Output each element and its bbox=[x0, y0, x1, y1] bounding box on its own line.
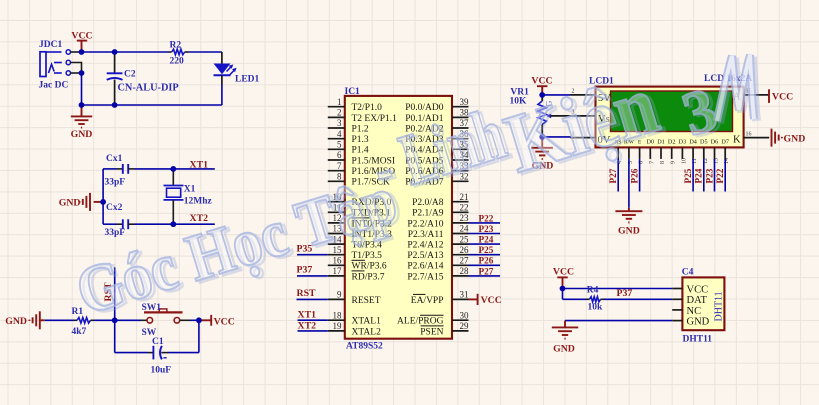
svg-text:P23: P23 bbox=[479, 224, 494, 234]
svg-text:23: 23 bbox=[460, 213, 470, 223]
svg-text:P2.1/A9: P2.1/A9 bbox=[412, 209, 444, 219]
LCD inside pin names bbox=[598, 92, 742, 147]
svg-text:4k7: 4k7 bbox=[72, 327, 87, 337]
svg-text:EA/VPP: EA/VPP bbox=[411, 296, 444, 306]
svg-text:28: 28 bbox=[460, 266, 470, 276]
svg-text:RD/P3.7: RD/P3.7 bbox=[352, 272, 385, 282]
svg-text:XT2: XT2 bbox=[298, 321, 317, 332]
svg-text:GND: GND bbox=[71, 129, 93, 140]
svg-text:26: 26 bbox=[460, 245, 470, 255]
ground (LCD K pin) bbox=[772, 129, 806, 147]
net wires + labels right of IC (P22-P27) bbox=[469, 213, 501, 276]
DHT11 rotated inner label bbox=[714, 291, 725, 321]
DHT11 pin stubs bbox=[672, 289, 682, 321]
svg-text:17: 17 bbox=[333, 266, 343, 276]
power VCC (DHT11) bbox=[553, 267, 574, 289]
svg-text:7: 7 bbox=[649, 161, 655, 164]
svg-text:GND: GND bbox=[784, 134, 806, 145]
svg-text:JDC1: JDC1 bbox=[39, 40, 62, 50]
DHT11 inside pin names bbox=[687, 284, 710, 327]
svg-text:PSEN: PSEN bbox=[420, 327, 443, 337]
wire gnd to R1 bbox=[45, 319, 74, 321]
wire: LED cathode down and bottom rail bbox=[221, 75, 223, 84]
ground (VR1) bbox=[532, 137, 554, 171]
LCD left pin stubs + numbers bbox=[571, 89, 596, 138]
svg-text:220: 220 bbox=[170, 57, 185, 67]
svg-text:CN-ALU-DIP: CN-ALU-DIP bbox=[118, 82, 179, 93]
LCD right pin stubs + numbers bbox=[744, 89, 770, 138]
ground (reset, left) bbox=[5, 311, 45, 329]
ground (DHT11) bbox=[552, 321, 672, 355]
wire R4 to DAT + net label P37 bbox=[601, 298, 605, 300]
svg-text:5: 5 bbox=[337, 140, 342, 150]
wire switch to VCC node bbox=[180, 319, 190, 321]
svg-text:7: 7 bbox=[337, 161, 342, 171]
potentiometer VR1 bbox=[510, 88, 571, 137]
svg-text:P2.7/A15: P2.7/A15 bbox=[407, 272, 443, 282]
svg-text:12Mhz: 12Mhz bbox=[184, 196, 213, 206]
svg-text:R4: R4 bbox=[587, 286, 599, 296]
reset junction dots bbox=[112, 317, 118, 323]
svg-text:P25: P25 bbox=[479, 245, 494, 255]
svg-text:GND: GND bbox=[553, 344, 575, 355]
svg-text:GND: GND bbox=[687, 317, 710, 328]
ground (jack) bbox=[71, 105, 93, 140]
svg-text:VCC: VCC bbox=[553, 267, 574, 278]
svg-text:19: 19 bbox=[333, 321, 343, 331]
svg-text:6: 6 bbox=[337, 150, 342, 160]
wire: R2 to LED bbox=[185, 51, 189, 53]
svg-text:P24: P24 bbox=[479, 235, 494, 245]
svg-text:XTAL1: XTAL1 bbox=[352, 317, 382, 327]
svg-text:K: K bbox=[733, 135, 741, 146]
wire LCD pin5 to ground bbox=[628, 159, 630, 208]
svg-text:XT1: XT1 bbox=[190, 160, 209, 171]
wire down to R4 row bbox=[562, 289, 564, 300]
svg-text:AT89S52: AT89S52 bbox=[346, 341, 383, 351]
svg-text:27: 27 bbox=[460, 256, 470, 266]
sensor C4 DHT11 body bbox=[682, 277, 724, 330]
svg-text:DHT11: DHT11 bbox=[683, 334, 713, 344]
svg-text:P22: P22 bbox=[479, 213, 494, 223]
LCD bottom pin stubs + numbers bbox=[617, 147, 730, 164]
svg-text:P26: P26 bbox=[479, 256, 494, 266]
svg-text:VCC: VCC bbox=[214, 316, 235, 327]
svg-text:R2: R2 bbox=[170, 40, 182, 50]
ground (crystal) bbox=[59, 193, 103, 211]
svg-text:X1: X1 bbox=[184, 185, 196, 195]
wire / net label XT2 bbox=[135, 223, 215, 225]
svg-text:33pF: 33pF bbox=[105, 228, 126, 238]
LCD green screen bbox=[611, 91, 733, 132]
ground (LCD contrast) bbox=[615, 208, 642, 237]
svg-text:8: 8 bbox=[660, 161, 666, 164]
net RST vertical bbox=[114, 267, 116, 320]
svg-text:1: 1 bbox=[337, 97, 342, 107]
power VCC (LCD A pin) bbox=[769, 89, 793, 103]
jack pin stubs bbox=[71, 52, 82, 73]
switch SW1 bbox=[142, 303, 183, 338]
jack vertical wire bbox=[81, 73, 83, 105]
svg-text:XTAL2: XTAL2 bbox=[352, 327, 382, 337]
svg-text:29: 29 bbox=[460, 321, 470, 331]
wire: VCC rail top bbox=[82, 51, 169, 53]
wire / net label XT1 bbox=[135, 168, 215, 170]
svg-text:LED1: LED1 bbox=[235, 74, 260, 84]
svg-text:T2 EX/P1.1: T2 EX/P1.1 bbox=[352, 114, 398, 124]
svg-text:P2.4/A12: P2.4/A12 bbox=[407, 241, 443, 251]
svg-text:Cx1: Cx1 bbox=[106, 154, 123, 164]
svg-text:33pF: 33pF bbox=[105, 178, 126, 188]
svg-text:VCC: VCC bbox=[687, 284, 709, 295]
capacitor C1 bbox=[115, 320, 199, 375]
svg-text:P27: P27 bbox=[479, 266, 494, 276]
svg-text:C2: C2 bbox=[124, 69, 136, 79]
svg-text:DHT11: DHT11 bbox=[714, 291, 725, 321]
junction dots power section bbox=[79, 49, 85, 55]
op-amp-free main chip: IC U1 body AT89S52 bbox=[345, 96, 452, 339]
svg-text:24: 24 bbox=[460, 224, 470, 234]
net wires + labels left of IC bbox=[297, 254, 328, 256]
svg-text:9: 9 bbox=[671, 161, 677, 164]
svg-text:Jac DC: Jac DC bbox=[39, 81, 69, 91]
svg-text:Cx2: Cx2 bbox=[106, 203, 123, 213]
svg-text:P37: P37 bbox=[617, 288, 633, 299]
IC left pin names bbox=[352, 103, 398, 337]
svg-text:4: 4 bbox=[337, 129, 342, 139]
svg-text:VCC: VCC bbox=[772, 91, 793, 102]
IC right pin numbers bbox=[460, 97, 470, 331]
svg-text:16: 16 bbox=[746, 131, 752, 137]
svg-text:GND: GND bbox=[5, 316, 27, 327]
svg-text:P2.2/A10: P2.2/A10 bbox=[407, 219, 443, 229]
svg-text:WR/P3.6: WR/P3.6 bbox=[352, 262, 387, 272]
svg-text:Kiện: Kiện bbox=[495, 58, 668, 191]
svg-text:GND: GND bbox=[618, 226, 640, 237]
svg-text:P2.3/A11: P2.3/A11 bbox=[408, 230, 444, 240]
svg-text:T1/P3.5: T1/P3.5 bbox=[352, 251, 383, 261]
svg-text:P1.4: P1.4 bbox=[352, 146, 369, 156]
svg-text:21: 21 bbox=[460, 192, 469, 202]
ghost pin mark G (VR1) bbox=[545, 101, 554, 107]
watermark (decorative) bbox=[68, 55, 757, 332]
LCD bottom wires + net labels bbox=[608, 159, 725, 192]
LCD1 body bbox=[596, 87, 744, 148]
svg-text:R1: R1 bbox=[72, 307, 84, 317]
power connector JDC1 bbox=[39, 40, 71, 91]
crystal X1 bbox=[164, 169, 213, 224]
wire: crystal left rail bbox=[102, 169, 104, 224]
svg-text:GND: GND bbox=[59, 198, 81, 209]
svg-text:P24: P24 bbox=[694, 168, 704, 183]
resistor R2 bbox=[170, 40, 185, 66]
crystal junction dots bbox=[170, 166, 176, 172]
svg-text:NC: NC bbox=[687, 306, 702, 317]
svg-text:P26: P26 bbox=[629, 168, 639, 183]
IC left pin stubs bbox=[328, 107, 345, 331]
svg-text:2: 2 bbox=[337, 108, 342, 118]
svg-text:10k: 10k bbox=[588, 303, 604, 313]
svg-text:ALE/PROG: ALE/PROG bbox=[397, 317, 444, 327]
LCD bottom inside labels bbox=[615, 139, 729, 146]
svg-text:P22: P22 bbox=[715, 168, 725, 183]
svg-text:25: 25 bbox=[460, 234, 470, 244]
svg-text:P25: P25 bbox=[683, 168, 693, 183]
capacitor Cx1 bbox=[103, 154, 134, 188]
svg-text:P23: P23 bbox=[704, 168, 714, 183]
power VCC (EA pin 31) bbox=[469, 294, 502, 306]
svg-text:DAT: DAT bbox=[687, 295, 708, 306]
svg-text:C1: C1 bbox=[152, 337, 164, 347]
capacitor Cx2 bbox=[103, 203, 134, 238]
svg-text:3: 3 bbox=[337, 118, 342, 128]
IC left pin numbers bbox=[333, 97, 343, 331]
svg-text:31: 31 bbox=[460, 290, 469, 300]
svg-text:18: 18 bbox=[333, 310, 343, 320]
resistor R1 bbox=[72, 307, 91, 337]
svg-text:30: 30 bbox=[460, 310, 470, 320]
wires VR1 to LCD bbox=[542, 94, 570, 96]
resistor R4 bbox=[587, 286, 603, 313]
IC right pin stubs bbox=[452, 107, 469, 331]
svg-text:VCC: VCC bbox=[481, 295, 502, 306]
svg-text:C4: C4 bbox=[682, 267, 694, 277]
svg-text:9: 9 bbox=[337, 290, 342, 300]
wire R1 to switch bbox=[91, 319, 95, 321]
svg-text:XT1: XT1 bbox=[298, 310, 317, 321]
svg-text:RST: RST bbox=[297, 288, 317, 299]
power VCC (VR1) bbox=[531, 76, 552, 95]
svg-text:IC1: IC1 bbox=[345, 87, 361, 97]
svg-text:P27: P27 bbox=[608, 168, 618, 183]
svg-text:T2/P1.0: T2/P1.0 bbox=[352, 103, 383, 113]
svg-text:P2.6/A14: P2.6/A14 bbox=[407, 262, 443, 272]
svg-text:RESET: RESET bbox=[352, 296, 381, 306]
capacitor C2 bbox=[107, 52, 179, 105]
svg-text:10uF: 10uF bbox=[151, 366, 172, 376]
svg-text:P2.5/A13: P2.5/A13 bbox=[407, 251, 443, 261]
LED LED1 bbox=[214, 64, 260, 85]
net label RST (rotated) bbox=[103, 282, 114, 302]
svg-text:D3: D3 bbox=[679, 139, 687, 146]
svg-text:22: 22 bbox=[460, 203, 469, 213]
power VCC (top-left) bbox=[71, 30, 92, 52]
svg-text:10: 10 bbox=[681, 158, 687, 164]
IC right pin names bbox=[397, 103, 444, 337]
power VCC (reset) bbox=[199, 315, 235, 327]
wire VCC to DHT11 pin1 bbox=[563, 288, 673, 290]
